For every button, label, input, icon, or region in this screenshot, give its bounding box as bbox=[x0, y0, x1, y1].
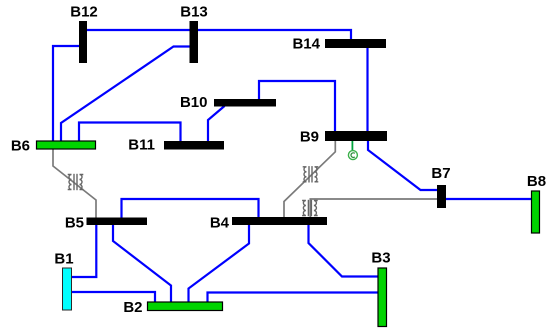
bus B12 bbox=[79, 21, 87, 63]
capacitor/condenser at B9 bbox=[348, 141, 357, 160]
bus B14 bbox=[325, 39, 386, 48]
wire line B4-B3 bbox=[309, 225, 379, 277]
wire transformer branch B6-B5 bbox=[53, 149, 96, 218]
svg-text:B3: B3 bbox=[371, 250, 390, 267]
svg-text:B5: B5 bbox=[65, 215, 84, 232]
wire line B11-B6 bbox=[79, 123, 181, 142]
wire transformer branch B4-B7 bbox=[310, 199, 437, 217]
bus B7 bbox=[437, 185, 446, 208]
wire line B5-B4 bbox=[122, 199, 259, 218]
svg-text:B9: B9 bbox=[300, 129, 319, 146]
wire line B14-B9 bbox=[366, 48, 368, 131]
transformer T2 (B9-B4) bbox=[303, 166, 319, 182]
svg-text:B10: B10 bbox=[180, 94, 208, 111]
wire line B12-B6 bbox=[53, 46, 79, 141]
wire line B7-B8 bbox=[446, 198, 531, 200]
svg-text:B1: B1 bbox=[54, 251, 73, 268]
wire line B10-B9 bbox=[259, 81, 335, 131]
bus B6 bbox=[37, 141, 96, 149]
svg-text:B2: B2 bbox=[123, 299, 142, 316]
wire line B1-B2 bbox=[72, 292, 155, 302]
bus B11 bbox=[164, 141, 224, 150]
svg-text:B6: B6 bbox=[11, 138, 30, 155]
bus B2 bbox=[148, 302, 223, 311]
svg-text:B8: B8 bbox=[527, 173, 546, 190]
bus B4 bbox=[232, 217, 327, 225]
svg-text:B7: B7 bbox=[431, 165, 450, 182]
bus B9 bbox=[325, 131, 387, 141]
wire line B13-B6 bbox=[61, 47, 190, 142]
bus B3 bbox=[378, 268, 387, 327]
svg-text:B13: B13 bbox=[180, 4, 208, 21]
bus B8 bbox=[532, 191, 540, 233]
bus B13 bbox=[190, 21, 199, 63]
wire line B2-B3 bbox=[208, 293, 379, 303]
wire line B13-B14 bbox=[198, 30, 351, 39]
wire line B9-B7 bbox=[368, 141, 437, 190]
wire line B5-B2 bbox=[113, 225, 171, 302]
transformer T1 (B6-B5) bbox=[68, 174, 84, 190]
svg-text:B14: B14 bbox=[292, 36, 320, 53]
bus B10 bbox=[214, 99, 276, 107]
wire line B12-B13 bbox=[87, 29, 190, 31]
svg-text:B4: B4 bbox=[210, 215, 230, 232]
bus B5 bbox=[87, 218, 148, 226]
wire transformer branch B9-B4 bbox=[284, 141, 335, 217]
svg-text:B11: B11 bbox=[128, 137, 155, 154]
wire line B4-B2 bbox=[189, 225, 250, 302]
bus B1 bbox=[63, 268, 72, 310]
wire line B10-B11 bbox=[208, 106, 225, 141]
wire line B5-B1 bbox=[72, 225, 96, 277]
transformer T3 (B4-B7) bbox=[302, 200, 318, 216]
svg-text:B12: B12 bbox=[70, 4, 98, 21]
